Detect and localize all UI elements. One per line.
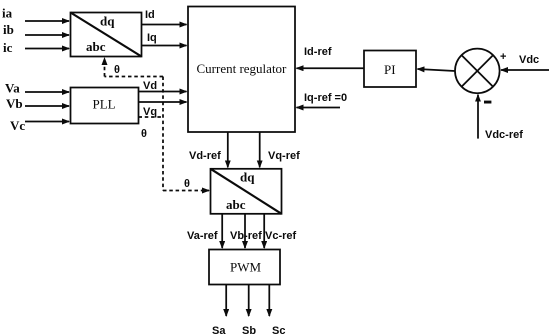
wire Va	[25, 91, 69, 93]
svg-text:dq: dq	[100, 14, 115, 29]
svg-text:Vc-ref: Vc-ref	[265, 230, 297, 242]
dashed theta wire to top transform	[105, 58, 164, 77]
svg-text:abc: abc	[86, 39, 106, 54]
PI block	[364, 51, 416, 88]
svg-text:Va: Va	[5, 81, 20, 96]
abc-to-dq transform block (top)	[71, 13, 142, 57]
svg-text:Current regulator: Current regulator	[197, 61, 288, 76]
wire Vd	[139, 91, 187, 93]
wire Sc	[268, 285, 270, 317]
svg-text:PI: PI	[384, 62, 396, 77]
svg-text:Vdc: Vdc	[519, 54, 539, 66]
svg-text:Vd: Vd	[143, 80, 157, 92]
wire Vc-ref	[263, 214, 265, 248]
svg-text:Id: Id	[145, 9, 155, 21]
wire Vd-ref	[227, 132, 229, 167]
wire Vc	[25, 121, 69, 123]
svg-text:PWM: PWM	[230, 260, 262, 275]
svg-text:+: +	[500, 51, 506, 63]
wire Sa	[225, 285, 227, 317]
svg-text:Vb-ref: Vb-ref	[230, 230, 262, 242]
svg-text:Id-ref: Id-ref	[304, 46, 332, 58]
wire Id-ref	[297, 67, 365, 69]
svg-text:abc: abc	[226, 197, 246, 212]
wire Sb	[248, 285, 250, 317]
svg-text:Sb: Sb	[242, 325, 256, 336]
svg-text:Va-ref: Va-ref	[187, 230, 218, 242]
wire ia	[25, 20, 69, 22]
svg-text:θ: θ	[184, 178, 190, 190]
wire ib	[25, 34, 69, 36]
svg-text:dq: dq	[240, 170, 255, 185]
svg-text:Vd-ref: Vd-ref	[189, 150, 221, 162]
wire Vdc-ref	[477, 95, 479, 139]
wire Vdc	[501, 69, 549, 71]
svg-text:Vdc-ref: Vdc-ref	[485, 129, 523, 141]
svg-text:Vq-ref: Vq-ref	[268, 150, 300, 162]
wire Iq-ref	[297, 107, 341, 109]
dashed theta wire from PLL	[139, 116, 164, 118]
wire Vq	[139, 101, 187, 103]
wire ic	[25, 48, 69, 50]
minus sign	[484, 101, 491, 104]
dashed theta vertical trunk	[162, 77, 164, 191]
svg-text:Sc: Sc	[272, 325, 285, 336]
summing junction	[455, 49, 500, 94]
wire Id	[142, 24, 187, 26]
wire Iq	[142, 45, 187, 47]
wire Vb-ref	[244, 214, 246, 248]
svg-text:θ: θ	[141, 128, 147, 140]
svg-text:Iq: Iq	[147, 32, 157, 44]
svg-text:θ: θ	[114, 64, 120, 76]
svg-text:ic: ic	[3, 40, 13, 55]
wire Vq-ref	[259, 132, 261, 167]
svg-text:ib: ib	[3, 22, 14, 37]
svg-text:Vq: Vq	[143, 106, 157, 118]
svg-text:ia: ia	[2, 6, 13, 21]
svg-text:Vc: Vc	[10, 118, 25, 133]
dq-to-abc transform block (bottom)	[211, 169, 282, 214]
PWM block	[209, 250, 280, 285]
svg-text:Vb: Vb	[6, 96, 23, 111]
svg-text:Sa: Sa	[212, 325, 226, 336]
svg-text:Iq-ref =0: Iq-ref =0	[304, 92, 347, 104]
wire Vb	[25, 105, 69, 107]
wire summing junction to PI	[418, 69, 456, 71]
wire Va-ref	[221, 214, 223, 248]
svg-text:PLL: PLL	[93, 97, 116, 112]
Current regulator block	[188, 7, 295, 133]
dashed theta wire to bottom transform	[163, 190, 209, 192]
PLL block	[71, 88, 139, 124]
